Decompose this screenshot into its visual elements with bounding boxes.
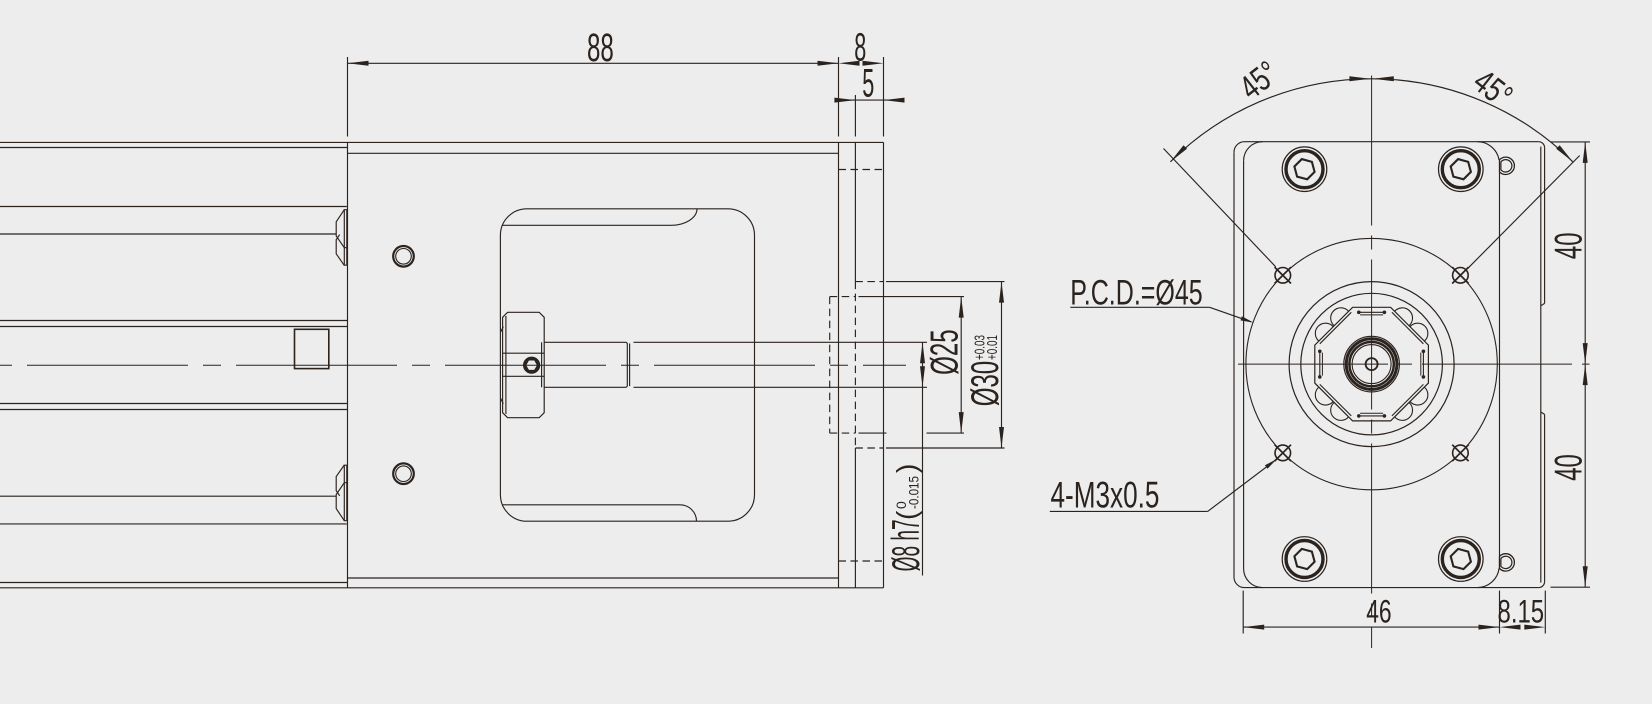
screw face top	[344, 210, 347, 266]
motor housing left edge	[1233, 152, 1235, 577]
dimension 815 arrow right	[1524, 625, 1545, 630]
svg-text:88: 88	[587, 26, 614, 70]
hub silhouette tick upper	[501, 327, 504, 333]
shaft ring thin	[1352, 345, 1391, 384]
end plate step edge upper	[854, 142, 856, 281]
retainer inner flat2 top	[1360, 314, 1383, 316]
svg-text:(: (	[891, 510, 922, 520]
dimension 5 arrow left	[834, 98, 855, 103]
extension line 46 right	[1499, 591, 1501, 634]
flange plate right edge	[1499, 172, 1501, 568]
dimension 8 arrow right	[863, 61, 884, 66]
label 4-M3 leader arrow	[1265, 459, 1277, 469]
hub bore top line	[503, 352, 545, 354]
dimension d30 arrow bottom	[999, 427, 1004, 448]
carriage hole upper	[393, 246, 414, 267]
dimension 45deg arrow top-left	[1349, 76, 1370, 81]
shaft center hole	[1366, 358, 1378, 370]
retainer inner flat2 right	[1420, 353, 1422, 376]
rod section 1	[544, 342, 627, 387]
motor housing right inner line	[1540, 147, 1542, 583]
motor housing right edge upper	[1544, 148, 1546, 304]
dimension 40 arrows middle	[1583, 343, 1588, 364]
dimension 5 arrow right	[884, 98, 905, 103]
tapped hole M3 top-right	[1453, 268, 1469, 284]
wire rail groove line A	[0, 206, 347, 208]
end plate outer face	[883, 142, 885, 587]
flange plate top-right corner	[1478, 142, 1500, 160]
label PCD underline	[1070, 306, 1209, 308]
carriage hole lower	[393, 463, 414, 484]
dimension 45deg arc	[1170, 79, 1572, 162]
dimension d8 arrow bottom	[920, 366, 925, 387]
screw face bottom	[344, 465, 347, 521]
wire rail top inner line	[0, 147, 348, 149]
screw head bottom rear	[336, 465, 344, 496]
retainer inner flat right	[1422, 351, 1424, 377]
hidden bore d25 bottom	[830, 432, 856, 434]
dimension d25 arrow top	[959, 297, 964, 318]
boss circle inner	[1301, 293, 1443, 435]
pocket floor bottom line	[502, 505, 696, 521]
centerline actuator axis	[0, 364, 906, 366]
rod section 2 bottom	[634, 386, 928, 388]
hub silhouette tick lower	[501, 398, 504, 404]
retainer inner flat2 bottom	[1360, 412, 1383, 414]
dimension 46 line	[1243, 626, 1499, 628]
carriage bottom inner line	[348, 577, 839, 579]
carriage left edge	[347, 142, 349, 587]
hidden bore d30 bottom	[855, 447, 883, 449]
hub left band line	[505, 316, 507, 414]
dimension 8 arrow left	[839, 61, 860, 66]
dimension 45deg arrow top-right	[1373, 76, 1394, 81]
motor housing bottom-left corner	[1234, 577, 1245, 588]
flange plate bottom-left corner	[1244, 569, 1263, 588]
end plate hidden lip bottom	[839, 560, 884, 562]
flange horizontal centerline	[1238, 363, 1590, 365]
extension line d25 top	[859, 296, 965, 298]
retainer inner flat left	[1319, 351, 1321, 377]
retainer inner edges	[1392, 312, 1424, 344]
dimension d30 line	[1001, 282, 1003, 448]
wire rail groove line H	[0, 523, 347, 525]
wire rail groove line F	[0, 409, 348, 411]
dimension d30 arrow top	[999, 282, 1004, 303]
wire rail groove line E	[0, 403, 348, 405]
svg-text:Ø25: Ø25	[924, 329, 967, 375]
retainer junction dots	[1383, 311, 1387, 315]
extension line d30 top	[886, 281, 1005, 283]
notch hole bottom	[1500, 554, 1515, 571]
pocket outline	[500, 209, 754, 521]
extension line 40 top	[1551, 141, 1591, 143]
dimension d25 line	[960, 297, 962, 434]
flange vertical centerline	[1371, 76, 1373, 649]
hidden bore d30 left	[854, 282, 856, 448]
end plate hidden lip top	[839, 169, 884, 171]
tapped hole M3 bottom-left	[1275, 445, 1291, 461]
svg-text:-0.015: -0.015	[906, 476, 922, 509]
svg-text:8.15: 8.15	[1498, 594, 1545, 630]
dimension d8 line	[922, 342, 924, 575]
radial line left 45deg	[1164, 149, 1276, 267]
extension line x838	[838, 57, 840, 137]
svg-text:4-M3x0.5: 4-M3x0.5	[1051, 475, 1160, 516]
motor housing bottom edge	[1245, 587, 1539, 589]
hub body	[503, 312, 545, 417]
cap screw bottom-right	[1439, 537, 1484, 582]
end plate step edge lower	[854, 448, 856, 588]
label PCD leader	[1210, 307, 1251, 322]
hidden bore d25 top	[830, 296, 856, 298]
bearing balls	[1410, 387, 1428, 405]
cap screw bottom-left	[1282, 537, 1327, 582]
wire rail groove line D	[0, 326, 348, 328]
screw head top rear	[336, 235, 344, 266]
hidden bore d30 top	[855, 281, 883, 283]
motor housing top-left corner	[1234, 142, 1245, 153]
motor housing jog upper	[1541, 303, 1545, 305]
dimension 5 line	[840, 99, 898, 101]
motor housing top edge	[1245, 141, 1539, 143]
rod section 2 top	[634, 341, 928, 343]
dimension d25 arrow bottom	[959, 412, 964, 433]
hub screw hex socket	[525, 360, 537, 371]
wire rail groove line G	[0, 495, 336, 497]
extension line x855	[854, 95, 856, 137]
dimension 46 arrow left	[1243, 625, 1264, 630]
dimension 45deg arrow end-right	[1556, 145, 1573, 162]
cap screw top-right	[1439, 147, 1484, 192]
dimension 40 line	[1584, 142, 1586, 587]
svg-text:Ø8 h7: Ø8 h7	[885, 519, 928, 571]
svg-text:P.C.D.=Ø45: P.C.D.=Ø45	[1070, 273, 1202, 312]
svg-text:): )	[891, 464, 922, 473]
tapped hole M3 bottom-right	[1453, 445, 1469, 461]
label 4-M3 leader	[1208, 461, 1275, 512]
dimension 40 arrow bottom	[1583, 566, 1588, 587]
svg-text:Ø30: Ø30	[964, 361, 1007, 407]
svg-text:40: 40	[1548, 233, 1591, 260]
svg-text:40: 40	[1548, 454, 1591, 481]
screw head bottom front	[336, 483, 344, 521]
cap screw top-left	[1282, 147, 1327, 192]
flange plate top-left corner	[1244, 142, 1263, 161]
radial line right 45deg	[1468, 156, 1580, 269]
extension line d30 bottom	[886, 447, 1005, 449]
svg-text:46: 46	[1366, 594, 1391, 630]
pocket floor top line	[502, 209, 697, 226]
retainer inner flat top	[1359, 311, 1385, 313]
dimension 45deg arrow end-left	[1170, 145, 1187, 162]
dimension 88 arrow right	[818, 61, 839, 66]
end plate inner face	[838, 142, 840, 587]
notch hole top	[1500, 157, 1515, 174]
carriage top inner line	[348, 152, 839, 154]
tapped hole M3 top-left	[1275, 268, 1291, 284]
svg-text:5: 5	[862, 62, 874, 106]
shaft collar ring band b	[1349, 342, 1393, 386]
extension line 40 bottom	[1551, 586, 1591, 588]
motor housing bottom-right corner	[1539, 582, 1545, 588]
rod end chamfer line	[629, 344, 631, 387]
extension line x883	[883, 57, 885, 137]
dimension 40 arrow top	[1583, 142, 1588, 163]
hidden bore d25 left	[829, 297, 831, 434]
wire rail bottom inner line	[0, 582, 348, 584]
motor housing top-right corner	[1539, 142, 1545, 148]
svg-text:+0.01: +0.01	[985, 335, 1001, 360]
wire rail bottom edge	[0, 587, 884, 589]
pitch circle PCD45	[1246, 238, 1497, 489]
shaft collar ring band a	[1346, 339, 1397, 390]
label PCD leader arrow	[1241, 316, 1254, 322]
retainer inner flat bottom	[1359, 415, 1385, 417]
dimension 88 line	[348, 62, 839, 64]
dimension d8 arrow top	[920, 342, 925, 363]
extension line 815 right	[1544, 591, 1546, 634]
label 4-M3 underline	[1050, 510, 1208, 512]
boss circle outer	[1289, 282, 1454, 447]
retainer octagon outer	[1315, 307, 1429, 421]
wire rail groove line C	[0, 320, 348, 322]
retainer inner flat2 left	[1321, 353, 1323, 376]
hub right shoulder line	[541, 342, 543, 387]
extension line x347	[347, 57, 349, 137]
wire rail top edge	[0, 141, 884, 143]
motor housing jog lower	[1541, 412, 1545, 414]
extension line d25 bottom b	[927, 432, 965, 434]
motor housing right edge lower	[1544, 414, 1546, 581]
flange plate bottom-right corner	[1478, 568, 1500, 587]
hub bore bottom line	[503, 375, 545, 377]
sensor block	[295, 329, 329, 368]
hub screw ring	[524, 358, 539, 373]
flange plate left edge	[1243, 161, 1245, 569]
screw head top front	[336, 210, 344, 248]
dimension 815 arrow left	[1500, 625, 1521, 630]
extension line d25 bottom a	[859, 432, 887, 434]
shaft collar ring outer	[1344, 336, 1400, 392]
dimension 88 arrow left	[348, 61, 369, 66]
extension line 46 left	[1242, 591, 1244, 634]
wire rail groove line B	[0, 233, 336, 235]
dimension 46 arrow right	[1479, 625, 1500, 630]
